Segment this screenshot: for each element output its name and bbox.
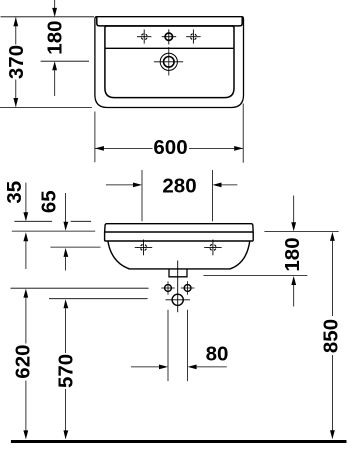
- svg-text:570: 570: [55, 354, 78, 388]
- dim 65 shafts: [65, 193, 67, 271]
- dim 180 top view shafts: [54, 0, 56, 96]
- arrow 850 up: [330, 232, 335, 241]
- front view rim mid line: [105, 231, 254, 233]
- top view inner bowl outline: [105, 26, 234, 98]
- extension line top edge left: [1, 16, 95, 18]
- arrow 570 down: [64, 430, 69, 439]
- arrow 65 up: [64, 248, 69, 257]
- center tap hole crosshair horizontal: [162, 36, 177, 38]
- arrow 600 right: [234, 146, 243, 151]
- top view back ledge band: [97, 17, 242, 26]
- right outlet hole: [181, 281, 195, 295]
- svg-text:850: 850: [320, 319, 343, 353]
- vertical centerline below basin: [177, 261, 179, 313]
- right tap hole cross: [186, 30, 200, 44]
- arrow 35 down: [23, 212, 28, 221]
- floor baseline: [11, 440, 347, 443]
- right fixing hole cross: [204, 240, 221, 256]
- arrow 180r up: [291, 276, 296, 285]
- arrow 620 up: [23, 289, 28, 298]
- dim 180 right shafts: [293, 196, 295, 307]
- front view left level line 2: [12, 230, 95, 232]
- center tap hole circle: [165, 33, 172, 40]
- arrow 280 right: [213, 183, 222, 188]
- dim 370 shaft: [15, 18, 17, 107]
- front view left level line 1: [14, 220, 91, 222]
- front view left level line 3: [50, 246, 100, 248]
- svg-text:180: 180: [43, 20, 66, 54]
- svg-text:620: 620: [12, 344, 35, 378]
- drain crosshair vertical: [168, 47, 170, 76]
- left tap hole cross: [137, 30, 151, 44]
- svg-text:80: 80: [206, 342, 229, 365]
- arrow 65 down: [64, 222, 69, 231]
- left outlet hole: [161, 281, 175, 295]
- svg-text:370: 370: [5, 45, 28, 79]
- svg-text:280: 280: [162, 174, 196, 197]
- arrow 180r down: [291, 222, 296, 231]
- arrow 620 down: [23, 430, 28, 439]
- drain outer circle: [160, 53, 177, 70]
- drain inner circle: [164, 57, 175, 68]
- svg-text:180: 180: [281, 237, 304, 271]
- drain flange rectangle: [169, 269, 187, 277]
- dim 80 extension lines: [168, 310, 188, 381]
- arrow 850 down: [330, 430, 335, 439]
- right level line R2: [203, 275, 307, 277]
- arrow 570 up: [64, 299, 69, 308]
- front view left level line 4: [11, 287, 149, 289]
- top view tap deck front edge line: [105, 47, 234, 49]
- left fixing hole cross: [135, 240, 152, 256]
- dim 280 extension lines: [142, 170, 213, 221]
- arrow 370 up: [13, 17, 18, 26]
- svg-text:35: 35: [3, 181, 26, 204]
- dim 280 shaft: [106, 184, 237, 186]
- front view rim slab: [105, 224, 254, 241]
- extension line drain centerline: [41, 60, 89, 62]
- dim 850 shafts: [331, 241, 333, 431]
- top view outer ceramic outline: [95, 17, 244, 108]
- dim 600 shaft: [95, 147, 243, 149]
- front view left level line 5: [49, 298, 148, 300]
- arrow 35 up: [23, 232, 28, 241]
- arrow 600 left: [95, 146, 104, 151]
- arrow 80 right: [188, 365, 197, 370]
- arrow 80 left: [159, 365, 168, 370]
- dim 620 shafts: [25, 297, 27, 430]
- arrow 180tv down: [52, 8, 57, 17]
- dim 35 shafts: [25, 183, 27, 269]
- arrow 370 down: [13, 98, 18, 107]
- extension line bottom of top view: [0, 106, 92, 108]
- dim 80 shafts: [131, 366, 227, 368]
- right level line R1: [264, 230, 338, 232]
- svg-text:600: 600: [153, 136, 187, 159]
- dim 570 shafts: [65, 308, 67, 431]
- main outlet circle: [166, 299, 191, 301]
- drain crosshair horizontal: [154, 61, 183, 63]
- front view body silhouette: [108, 241, 250, 269]
- arrow 180tv up: [52, 61, 57, 70]
- arrow 280 left: [133, 183, 142, 188]
- center tap hole crosshair vertical: [168, 29, 170, 44]
- dim 600 extension lines: [95, 104, 243, 163]
- svg-text:65: 65: [38, 190, 61, 213]
